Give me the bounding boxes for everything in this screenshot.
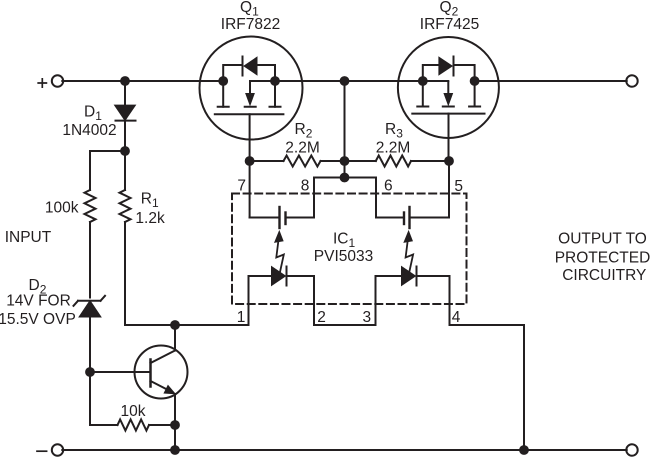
svg-text:6: 6 bbox=[384, 178, 393, 195]
Q1 substrate arrow stem bbox=[249, 82, 251, 94]
plus terminal bbox=[38, 75, 63, 87]
resistor R2 bbox=[284, 156, 321, 167]
wire: 10k to emitter node bbox=[149, 424, 175, 426]
node: gate R2 junction bbox=[245, 156, 255, 166]
Q2 body diode triangle bbox=[439, 57, 452, 75]
svg-text:15.5V OVP: 15.5V OVP bbox=[0, 311, 76, 328]
svg-text:INPUT: INPUT bbox=[5, 229, 52, 246]
node: Q1 left terminal bbox=[218, 76, 228, 86]
Q2 gate bar bbox=[412, 113, 484, 115]
wire: right LED to pin 4 bbox=[417, 275, 450, 277]
photovoltaic cell right bbox=[376, 207, 449, 228]
minus terminal bbox=[37, 444, 63, 455]
plus sign bbox=[38, 79, 46, 87]
node: Q2 right terminal bbox=[470, 76, 480, 86]
D2 zener cathode bar bbox=[74, 296, 106, 306]
node: D1 rail junction bbox=[120, 76, 130, 86]
wire: R2 right lead bbox=[321, 160, 345, 162]
svg-text:2.2M: 2.2M bbox=[285, 140, 319, 157]
D1 cathode bar bbox=[116, 120, 136, 122]
Q1 body diode anode wire bbox=[257, 65, 275, 81]
svg-text:3: 3 bbox=[362, 309, 371, 326]
transistor emitter arrowhead bbox=[164, 386, 175, 394]
wire: pin 2 vertical bbox=[313, 276, 315, 325]
wire: R3 right lead bbox=[411, 160, 449, 162]
zener diode D2 bbox=[74, 296, 106, 425]
right LED cathode bar bbox=[416, 267, 418, 286]
left opto arrowhead bbox=[275, 231, 283, 242]
minus sign bbox=[37, 450, 47, 452]
Q1 body diode triangle bbox=[244, 57, 257, 75]
transistor Q (NPN) bbox=[135, 325, 188, 450]
minus output terminal bbox=[626, 444, 637, 455]
right opto zigzag bbox=[406, 242, 414, 273]
svg-text:1: 1 bbox=[237, 309, 246, 326]
wire: pin 3 to right LED bbox=[376, 275, 402, 277]
node: Q2 left terminal bbox=[418, 76, 428, 86]
wire: pin 2 to pin 3 bridge bbox=[314, 324, 376, 326]
svg-text:IRF7822: IRF7822 bbox=[221, 16, 280, 33]
wire: R1 branch top bbox=[124, 151, 126, 190]
Q1 circle bbox=[200, 37, 303, 140]
node: pin8 line junction bbox=[340, 173, 350, 183]
resistor 100k bbox=[85, 190, 96, 222]
resistor 10k bbox=[118, 420, 150, 431]
wire: Q2 gate lead bbox=[448, 114, 450, 161]
wire: 100k to zener bbox=[89, 222, 91, 298]
node: emitter/10k junction bbox=[170, 420, 180, 430]
opto arrow left bbox=[275, 231, 284, 272]
plus terminal circle bbox=[52, 75, 63, 86]
node: plus rail dots bbox=[120, 76, 479, 86]
node: D1 / 100k / R1 junction bbox=[120, 146, 130, 156]
Q2 substrate link bbox=[423, 80, 449, 82]
wire: minus rail bbox=[62, 449, 626, 451]
wire: pin 3 vertical bbox=[375, 276, 377, 325]
D1 triangle bbox=[116, 106, 135, 120]
Q1 substrate link bbox=[250, 80, 275, 82]
wire: junction to 100k branch bbox=[90, 151, 125, 190]
right cell long plate bbox=[408, 207, 410, 228]
wire: Q1 gate lead bbox=[249, 114, 251, 161]
wire: pin 7 to left cell bbox=[250, 217, 279, 219]
left cell short plate bbox=[284, 213, 286, 225]
wire: plus rail left segment bbox=[62, 80, 223, 82]
wire: D1 cathode lead bbox=[124, 121, 126, 151]
svg-text:PVI5033: PVI5033 bbox=[314, 248, 373, 265]
node: base junction bbox=[85, 367, 95, 377]
svg-text:OUTPUT TO: OUTPUT TO bbox=[558, 231, 647, 248]
wire: plus rail right segment bbox=[475, 80, 627, 82]
Q1 terminal stubs to channel contacts bbox=[223, 81, 275, 107]
MOSFET Q2 bbox=[398, 37, 499, 161]
wire: pin 6 vertical bbox=[375, 178, 377, 218]
wire: zener branch corner to 10k bbox=[90, 424, 118, 426]
wire: base wire bbox=[90, 371, 151, 373]
right cell short plate bbox=[403, 213, 405, 225]
wire: pin 4 to minus rail bbox=[450, 325, 525, 450]
svg-text:14V FOR: 14V FOR bbox=[6, 292, 71, 309]
Q1 body diode cathode bar bbox=[242, 57, 244, 76]
svg-text:D1: D1 bbox=[84, 103, 102, 123]
node: pin4 rail junction bbox=[519, 445, 529, 455]
Q2 body diode anode wire bbox=[423, 65, 439, 81]
Q2 circle bbox=[398, 37, 499, 138]
wire: plus rail middle segment bbox=[275, 80, 423, 82]
wire: left LED to pin 2 bbox=[287, 275, 315, 277]
Q2 drain stub and body diode wire bbox=[454, 65, 475, 81]
wire: D2 anode lead down bbox=[89, 317, 91, 426]
plus output terminal bbox=[626, 75, 637, 86]
svg-text:7: 7 bbox=[237, 178, 246, 195]
svg-text:4: 4 bbox=[452, 309, 461, 326]
transistor emitter lead bbox=[151, 381, 174, 393]
LED left bbox=[249, 267, 315, 286]
MOSFET Q1 bbox=[200, 37, 303, 162]
wire: pin 8 vertical bbox=[313, 178, 315, 218]
wire: right cell to pin 5 bbox=[410, 217, 449, 219]
left opto zigzag bbox=[276, 242, 284, 273]
Q2 terminal stubs to channel contacts bbox=[423, 81, 475, 107]
right opto arrowhead bbox=[404, 231, 412, 242]
wire: left cell to pin 8 bbox=[286, 217, 314, 219]
node: emitter rail junction bbox=[170, 445, 180, 455]
svg-text:8: 8 bbox=[301, 178, 310, 195]
svg-text:2.2M: 2.2M bbox=[376, 140, 410, 157]
svg-text:R3: R3 bbox=[385, 121, 403, 141]
left LED triangle bbox=[272, 267, 286, 286]
svg-text:IRF7425: IRF7425 bbox=[420, 16, 479, 33]
Q2 channel contact bars bbox=[417, 106, 480, 108]
transistor base bar bbox=[149, 360, 152, 387]
Q1 gate bar bbox=[215, 113, 284, 115]
diode D1 bbox=[116, 81, 136, 151]
LED right bbox=[376, 267, 450, 286]
wire: R3 left lead bbox=[345, 160, 376, 162]
Q2 body diode cathode bar bbox=[453, 57, 455, 76]
Q2 substrate arrowhead bbox=[444, 94, 452, 106]
label OUTPUT TO PROTECTED CIRCUITRY bbox=[555, 231, 650, 285]
wire: pin 1 to left LED bbox=[249, 275, 272, 277]
svg-text:1N4002: 1N4002 bbox=[62, 122, 116, 139]
wire: pin 7 vertical bbox=[249, 161, 251, 218]
svg-text:100k: 100k bbox=[45, 199, 79, 216]
wire: pin 6 to right cell bbox=[376, 217, 404, 219]
Q1 channel contact bars bbox=[218, 106, 281, 108]
minus terminal circle bbox=[52, 444, 63, 455]
svg-text:1.2k: 1.2k bbox=[135, 210, 165, 227]
transistor circle bbox=[135, 346, 188, 399]
node: center rail junction bbox=[340, 76, 350, 86]
photovoltaic cell left bbox=[250, 207, 314, 228]
wire: R2 left lead bbox=[250, 160, 284, 162]
wire: R1 bottom to pin1 line bbox=[125, 222, 249, 325]
svg-text:R2: R2 bbox=[295, 121, 313, 141]
Q1 substrate arrowhead bbox=[246, 94, 254, 106]
wire: pin 5 vertical bbox=[448, 161, 450, 218]
wire: pin 4 vertical bbox=[449, 276, 451, 325]
Q1 drain stub and body diode wire bbox=[223, 65, 242, 81]
svg-text:R1: R1 bbox=[141, 191, 159, 211]
Q2 substrate arrow stem bbox=[447, 82, 449, 94]
svg-text:IC1: IC1 bbox=[333, 231, 356, 251]
D2 triangle bbox=[80, 302, 100, 317]
right LED triangle bbox=[402, 267, 416, 286]
svg-text:5: 5 bbox=[454, 178, 463, 195]
wire: center vertical from rail to pin8 line bbox=[344, 81, 346, 178]
node: collector junction bbox=[170, 320, 180, 330]
opto arrow right bbox=[404, 231, 413, 272]
wire: emitter to minus rail bbox=[174, 394, 176, 450]
IC1 dashed box bbox=[232, 194, 467, 305]
left cell long plate bbox=[278, 207, 280, 228]
resistor R3 bbox=[376, 156, 411, 167]
wire: D1 anode lead bbox=[124, 81, 126, 106]
node: center R2 R3 junction bbox=[340, 156, 350, 166]
left LED cathode bar bbox=[286, 267, 288, 286]
transistor collector lead bbox=[151, 325, 176, 363]
node: Q1 right terminal bbox=[270, 76, 280, 86]
svg-text:PROTECTED: PROTECTED bbox=[555, 250, 650, 267]
resistor R1 bbox=[120, 190, 131, 222]
wire: pin8 to pin6 top link bbox=[314, 177, 376, 179]
node: gate R3 junction bbox=[444, 156, 454, 166]
svg-text:CIRCUITRY: CIRCUITRY bbox=[562, 267, 646, 284]
svg-text:10k: 10k bbox=[121, 403, 146, 420]
svg-text:2: 2 bbox=[317, 309, 326, 326]
wire: pin 1 vertical bbox=[248, 276, 250, 325]
